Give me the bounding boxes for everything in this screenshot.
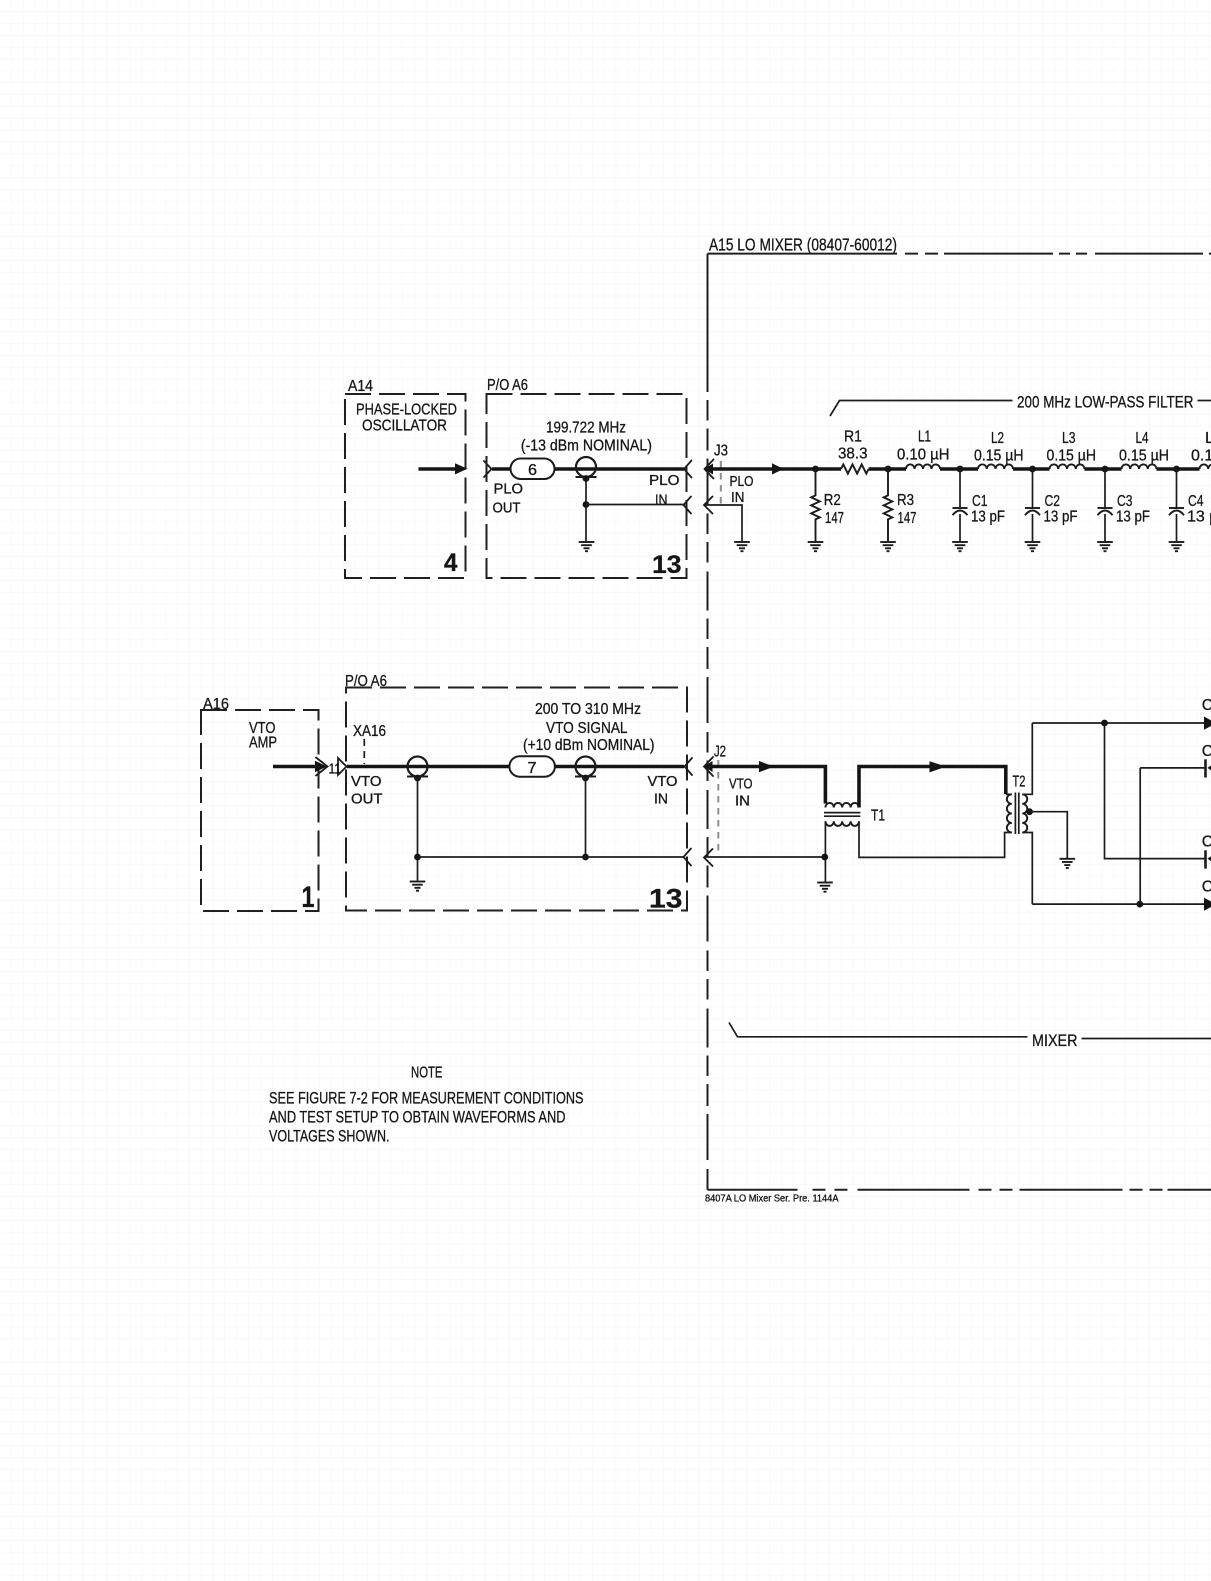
svg-text:VOLTAGES SHOWN.: VOLTAGES SHOWN.	[269, 1127, 390, 1146]
feedthrough capacitor symbol (VTO right)	[575, 757, 596, 777]
wire line to CR2	[1140, 767, 1205, 769]
ground P/O A6 PLO	[579, 542, 595, 551]
node dot T2 center tap	[1026, 808, 1033, 815]
svg-text:AMP: AMP	[249, 735, 277, 752]
cable marker oval 7	[509, 756, 555, 777]
connector chevron into P/O A6 (PLO)	[484, 461, 492, 477]
wire vertical from top line dot down to CR3 line	[1105, 723, 1206, 859]
connector J3 return chevron	[704, 497, 713, 514]
transformer T2 core	[1014, 793, 1016, 835]
wire T2 primary top lead	[1006, 793, 1012, 795]
svg-text:SEE FIGURE 7-2 FOR MEASUREMENT: SEE FIGURE 7-2 FOR MEASUREMENT CONDITION…	[269, 1089, 584, 1108]
callout 200 MHz LOW-PASS FILTER	[830, 401, 1013, 417]
transformer T1 core	[824, 812, 860, 814]
signal direction arrow on VTO line	[759, 761, 774, 772]
svg-text:CR2: CR2	[1202, 743, 1211, 760]
svg-text:6: 6	[528, 462, 537, 479]
svg-text:L4: L4	[1136, 430, 1149, 447]
node dot T1 return junction	[821, 854, 828, 861]
wire right feedthrough down	[585, 778, 587, 857]
svg-text:J2: J2	[714, 744, 726, 761]
transformer T1 secondary winding	[825, 821, 859, 826]
wire PLO return line	[586, 504, 684, 506]
node dot R2 junction	[812, 466, 819, 473]
node dot under feedthrough (PLO)	[583, 475, 590, 482]
svg-text:13 pF: 13 pF	[1116, 509, 1150, 526]
node dot VTO return left junction	[414, 854, 421, 861]
svg-text:T1: T1	[871, 808, 885, 825]
node dot C2 junction	[1029, 466, 1036, 473]
svg-text:VTO: VTO	[351, 774, 382, 790]
node dot on top line	[1101, 720, 1108, 727]
svg-text:200 TO 310 MHz: 200 TO 310 MHz	[535, 701, 641, 718]
XA16 dashed stub	[363, 739, 365, 764]
svg-text:T2: T2	[1013, 774, 1026, 791]
inductor L5 clipped at edge	[1200, 464, 1211, 469]
connector chevron P/O A6 right edge return	[684, 497, 692, 514]
enclosure A15 bottom border	[707, 1173, 709, 1190]
svg-text:11: 11	[329, 762, 342, 778]
svg-text:C4: C4	[1188, 493, 1204, 510]
svg-text:A16: A16	[203, 696, 229, 713]
svg-text:IN: IN	[735, 794, 750, 810]
wire T2 center tap to ground	[1030, 812, 1068, 858]
wire feedthrough to ground (PLO)	[585, 479, 587, 542]
node dot under left feedthrough	[414, 775, 421, 782]
svg-text:CR1: CR1	[1202, 697, 1211, 714]
wire T1 secondary right lead to T2 primary bottom	[859, 821, 1012, 857]
svg-text:4: 4	[444, 549, 458, 577]
wire T1 primary right lead up and to T2	[859, 767, 1006, 808]
svg-text:A14: A14	[348, 378, 373, 395]
svg-text:L3: L3	[1062, 430, 1076, 447]
svg-text:PLO: PLO	[649, 473, 680, 489]
connector XA16 open triangle	[338, 758, 347, 775]
module P/O A6 box (VTO section)	[346, 688, 687, 911]
wire T2 secondary bottom lead down	[1022, 833, 1032, 905]
svg-text:C2: C2	[1045, 493, 1061, 510]
ground R3	[880, 542, 896, 551]
inductor L1	[906, 464, 940, 469]
wire LO main line segments through filter	[869, 467, 906, 471]
node dot on bottom line	[1136, 901, 1143, 908]
svg-text:P/O A6: P/O A6	[345, 673, 387, 690]
capacitor C4	[1176, 469, 1178, 508]
node dot C4 junction	[1173, 466, 1180, 473]
wire left feedthrough down	[417, 778, 419, 881]
module A16 box	[201, 710, 319, 911]
svg-text:0.15 µH: 0.15 µH	[974, 448, 1024, 465]
svg-text:CR3: CR3	[1202, 834, 1211, 851]
inductor L2	[978, 464, 1013, 469]
signal direction arrow T1 to T2	[930, 761, 947, 772]
svg-text:L2: L2	[991, 430, 1004, 447]
node dot PLO return junction	[583, 501, 590, 508]
svg-text:(-13 dBm NOMINAL): (-13 dBm NOMINAL)	[521, 438, 652, 455]
connector chevron P/O A6 right edge main	[684, 461, 692, 478]
connector chevron P/O A6 VTO right edge return	[684, 849, 692, 866]
inductor L4	[1122, 464, 1157, 469]
svg-text:NOTE: NOTE	[411, 1065, 443, 1082]
inductor L3	[1050, 464, 1085, 469]
svg-text:199.722 MHz: 199.722 MHz	[546, 420, 626, 437]
connector J2 return chevron	[704, 849, 713, 866]
svg-text:147: 147	[825, 510, 844, 527]
svg-text:0.15 µH: 0.15 µH	[1047, 448, 1097, 465]
node dot R3 junction	[885, 466, 892, 473]
svg-text:200 MHz LOW-PASS FILTER: 200 MHz LOW-PASS FILTER	[1017, 393, 1194, 412]
diode CR1 anode triangle (clipped)	[1204, 717, 1211, 730]
wire mixer top line to CR1	[1032, 722, 1204, 724]
wire J3 return to ground	[705, 505, 742, 542]
svg-text:IN: IN	[654, 792, 668, 808]
ground C2	[1025, 542, 1041, 551]
ground C3	[1097, 542, 1113, 551]
wire VTO main line J2 to T1	[706, 767, 825, 804]
svg-text:AND TEST SETUP TO OBTAIN WAVEF: AND TEST SETUP TO OBTAIN WAVEFORMS AND	[269, 1108, 566, 1127]
svg-text:R3: R3	[897, 492, 914, 509]
svg-text:OUT: OUT	[493, 501, 521, 517]
svg-text:7: 7	[528, 760, 537, 777]
capacitor C3	[1104, 469, 1106, 508]
capacitor C1	[959, 469, 961, 508]
svg-text:P/O A6: P/O A6	[487, 377, 528, 394]
ground C1	[952, 542, 968, 551]
svg-text:13 pF: 13 pF	[1187, 509, 1211, 526]
svg-text:PLO: PLO	[730, 474, 754, 490]
enclosure A15 top border	[708, 253, 898, 255]
callout MIXER	[729, 1023, 1028, 1037]
node dot VTO return right junction	[582, 854, 589, 861]
svg-text:PLO: PLO	[494, 482, 524, 498]
connector J2 chevron and arrow	[704, 761, 713, 772]
svg-text:8407A LO Mixer Ser. Pre. 1144A: 8407A LO Mixer Ser. Pre. 1144A	[705, 1194, 839, 1205]
svg-text:1: 1	[302, 881, 315, 914]
ground P/O A6 VTO	[410, 882, 426, 891]
svg-text:0.15 µH: 0.15 µH	[1119, 448, 1169, 465]
ground T2 center tap	[1060, 859, 1076, 868]
wire vertical from CR2 line down to bottom line dot	[1139, 768, 1141, 904]
wire VTO OUT arrow from A16	[273, 765, 315, 769]
connector chevron P/O A6 VTO right edge main	[685, 758, 693, 775]
feedthrough capacitor symbol (PLO)	[576, 457, 597, 477]
svg-text:13 pF: 13 pF	[971, 509, 1005, 526]
wire VTO return line	[418, 856, 684, 858]
wire J2 return line to T1	[705, 856, 824, 858]
wire PLO OUT arrow from A14	[419, 467, 458, 471]
svg-text:XA16: XA16	[353, 723, 386, 740]
wire bottom line to CR4	[1032, 903, 1204, 905]
svg-text:38.3: 38.3	[838, 446, 868, 463]
connector chevron at A16 edge	[316, 758, 328, 776]
enclosure A15 left border	[707, 254, 709, 353]
module A14 box	[345, 394, 466, 578]
svg-text:J3: J3	[714, 443, 728, 460]
svg-text:PHASE-LOCKED: PHASE-LOCKED	[356, 402, 457, 419]
svg-text:C1: C1	[972, 493, 988, 510]
resistor R1	[841, 464, 869, 473]
wire T2 secondary top lead to CR line	[1022, 723, 1032, 794]
svg-text:C3: C3	[1117, 493, 1133, 510]
module P/O A6 box (PLO section)	[487, 394, 687, 578]
feedthrough capacitor symbol (VTO left)	[407, 757, 428, 777]
wire PLO line in P/O A6	[492, 467, 684, 471]
transformer T2 primary winding	[1007, 794, 1012, 832]
ground T1	[817, 883, 833, 892]
svg-text:VTO: VTO	[729, 777, 753, 793]
svg-text:VTO SIGNAL: VTO SIGNAL	[546, 720, 628, 737]
node dot C1 junction	[957, 466, 964, 473]
svg-text:13: 13	[649, 884, 683, 914]
svg-text:R1: R1	[844, 429, 862, 446]
node dot C3 junction	[1102, 466, 1109, 473]
diode CR2 cathode bar (clipped)	[1204, 759, 1207, 777]
ground R2	[808, 542, 824, 551]
ground J3 return	[734, 542, 750, 551]
svg-text:147: 147	[898, 510, 917, 527]
svg-text:A15 LO MIXER (08407-60012): A15 LO MIXER (08407-60012)	[709, 235, 897, 255]
resistor R2	[811, 469, 820, 542]
diode CR3 cathode bar (clipped)	[1204, 850, 1207, 868]
svg-text:(+10 dBm NOMINAL): (+10 dBm NOMINAL)	[523, 737, 655, 754]
wire LO main line J3 to R1	[706, 467, 841, 471]
resistor R3	[884, 469, 893, 542]
capacitor C2	[1032, 469, 1034, 508]
ground C4	[1169, 542, 1185, 551]
transformer T1 primary winding	[825, 803, 859, 808]
svg-text:OUT: OUT	[351, 792, 383, 808]
svg-text:CR4: CR4	[1202, 879, 1211, 896]
diode CR4 anode triangle (clipped)	[1204, 898, 1211, 911]
svg-text:OSCILLATOR: OSCILLATOR	[362, 418, 447, 435]
svg-text:VTO: VTO	[648, 774, 678, 790]
svg-text:L1: L1	[918, 429, 931, 446]
connector J3 chevron and arrow	[704, 464, 713, 475]
svg-text:MIXER: MIXER	[1032, 1031, 1078, 1050]
transformer T2 secondary winding	[1022, 794, 1027, 832]
svg-text:IN: IN	[731, 490, 745, 506]
cable marker oval 6	[511, 459, 555, 480]
svg-text:L5: L5	[1205, 430, 1211, 447]
svg-text:0.15 µH: 0.15 µH	[1191, 448, 1211, 465]
wire VTO line in P/O A6	[347, 765, 684, 769]
svg-text:13 pF: 13 pF	[1044, 509, 1078, 526]
coax shield dashed stub J3	[720, 461, 722, 504]
wire T1 secondary left lead to ground	[824, 821, 826, 882]
svg-text:IN: IN	[655, 493, 668, 509]
signal direction arrow on LO line	[772, 463, 784, 474]
svg-text:13: 13	[652, 551, 682, 579]
node dot under right feedthrough	[582, 775, 589, 782]
svg-text:R2: R2	[824, 492, 841, 509]
coax shield dashed stub J2	[717, 760, 719, 855]
svg-text:0.10 µH: 0.10 µH	[897, 447, 950, 464]
